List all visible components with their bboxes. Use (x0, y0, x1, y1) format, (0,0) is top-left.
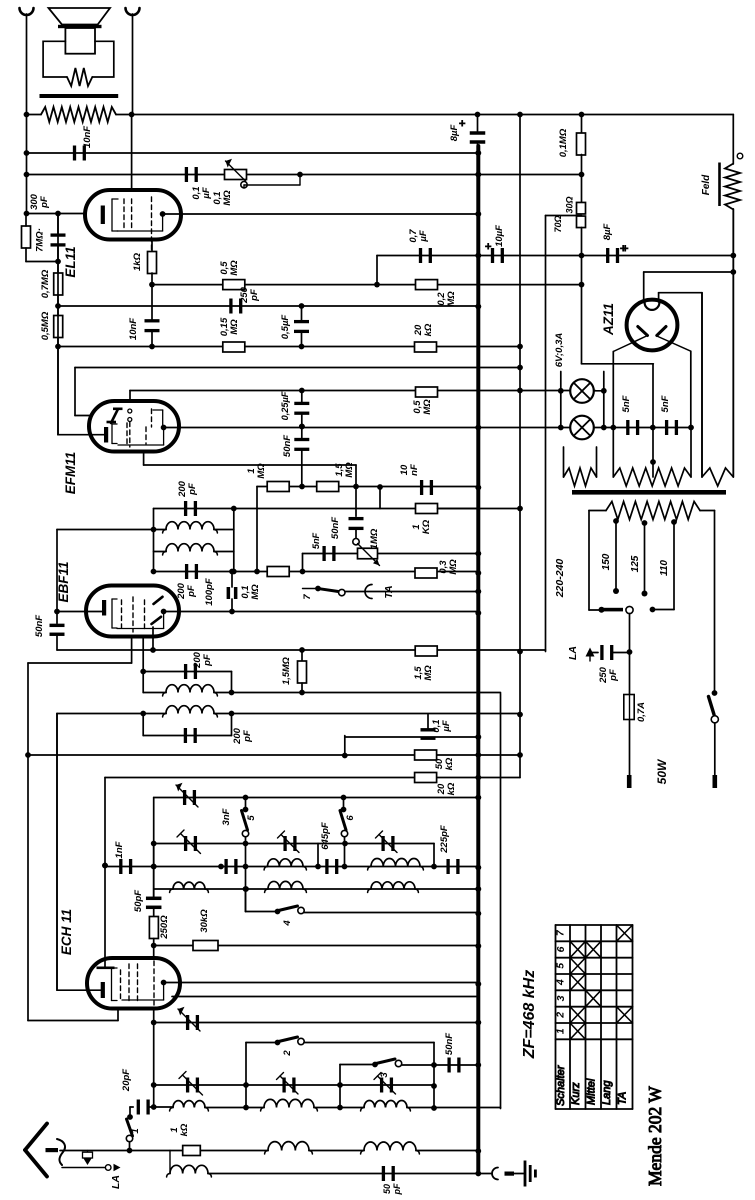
svg-text:0,15: 0,15 (219, 317, 230, 336)
svg-text:Kurz: Kurz (570, 1082, 582, 1105)
svg-text:1: 1 (411, 524, 422, 529)
svg-text:30kΩ: 30kΩ (199, 909, 210, 933)
svg-text:10µF: 10µF (494, 225, 505, 247)
svg-text:200: 200 (176, 582, 187, 600)
svg-text:645pF: 645pF (320, 822, 331, 850)
svg-text:110: 110 (659, 560, 670, 576)
svg-text:0,1: 0,1 (240, 585, 251, 598)
svg-text:5nF: 5nF (311, 532, 321, 549)
svg-text:50nF: 50nF (330, 517, 341, 539)
svg-text:1: 1 (555, 1028, 567, 1034)
svg-text:4: 4 (282, 920, 293, 927)
svg-text:50: 50 (434, 758, 445, 769)
svg-text:MΩ: MΩ (422, 399, 433, 415)
svg-text:200: 200 (177, 480, 188, 498)
svg-text:pF: pF (242, 730, 253, 743)
svg-text:100pF: 100pF (204, 578, 215, 606)
svg-text:TA: TA (617, 1092, 629, 1105)
svg-text:0,1: 0,1 (212, 191, 223, 204)
svg-text:2: 2 (555, 1012, 567, 1019)
svg-text:pF: pF (39, 196, 50, 209)
svg-text:MΩ: MΩ (344, 462, 355, 478)
svg-text:LA: LA (110, 1175, 122, 1189)
svg-text:125: 125 (630, 555, 641, 572)
svg-text:+: + (620, 243, 626, 255)
svg-text:nF: nF (409, 464, 420, 476)
svg-text:MΩ: MΩ (256, 463, 267, 479)
svg-text:EBF11: EBF11 (56, 561, 71, 602)
svg-text:50nF: 50nF (34, 615, 45, 637)
svg-text:EFM11: EFM11 (63, 452, 78, 495)
svg-text:1,5: 1,5 (334, 463, 345, 477)
svg-text:6: 6 (345, 815, 356, 821)
svg-text:ECH 11: ECH 11 (59, 909, 74, 955)
svg-text:7: 7 (555, 929, 567, 936)
svg-text:3: 3 (555, 995, 567, 1001)
svg-text:+: + (485, 241, 491, 253)
svg-text:225pF: 225pF (439, 825, 450, 854)
svg-text:200: 200 (192, 651, 203, 669)
svg-text:MΩ: MΩ (250, 584, 261, 600)
svg-text:EL11: EL11 (63, 246, 78, 277)
svg-text:3nF: 3nF (221, 808, 232, 825)
svg-text:pF: pF (187, 483, 198, 496)
svg-text:pF: pF (608, 669, 619, 682)
svg-text:MΩ: MΩ (423, 665, 434, 681)
svg-text:kΩ: kΩ (446, 782, 457, 795)
svg-text:200: 200 (232, 727, 243, 745)
svg-text:MΩ: MΩ (446, 291, 457, 307)
svg-text:Mende 202 W: Mende 202 W (645, 1086, 665, 1186)
svg-text:pF: pF (202, 654, 213, 667)
svg-text:0,5: 0,5 (219, 261, 230, 275)
svg-text:1MΩ: 1MΩ (369, 528, 380, 549)
svg-text:LA: LA (567, 646, 579, 660)
svg-text:1,5: 1,5 (413, 666, 424, 680)
svg-text:kΩ: kΩ (179, 1123, 190, 1136)
svg-text:MΩ: MΩ (229, 260, 240, 276)
svg-text:150: 150 (601, 553, 612, 570)
svg-text:250: 250 (598, 666, 609, 684)
svg-text:0,25µF: 0,25µF (280, 391, 290, 420)
svg-text:300: 300 (29, 193, 40, 210)
svg-text:1kΩ: 1kΩ (132, 252, 143, 271)
svg-text:50W: 50W (655, 758, 669, 784)
svg-text:70Ω: 70Ω (553, 215, 563, 232)
svg-text:20: 20 (436, 783, 447, 795)
svg-text:20: 20 (413, 324, 424, 336)
svg-text:Feld: Feld (701, 174, 712, 195)
svg-text:0,1: 0,1 (191, 186, 202, 199)
svg-text:7: 7 (302, 594, 313, 600)
svg-text:ZF=468 kHz: ZF=468 kHz (521, 970, 538, 1059)
svg-text:KΩ: KΩ (421, 519, 432, 534)
svg-text:10nF: 10nF (82, 126, 93, 148)
svg-text:5nF: 5nF (621, 395, 632, 412)
svg-text:5nF: 5nF (660, 395, 671, 412)
svg-text:1nF: 1nF (114, 841, 125, 858)
svg-text:pF: pF (186, 585, 197, 598)
svg-text:250: 250 (239, 286, 250, 304)
svg-text:MΩ: MΩ (448, 559, 459, 575)
svg-text:TA: TA (383, 585, 395, 598)
svg-text:Schalter: Schalter (555, 1064, 567, 1106)
svg-text:50: 50 (382, 1184, 392, 1194)
svg-text:10: 10 (399, 464, 410, 475)
svg-text:µF: µF (418, 230, 429, 242)
svg-text:20pF: 20pF (121, 1069, 132, 1092)
svg-text:220-240: 220-240 (554, 559, 566, 599)
svg-text:kΩ: kΩ (444, 757, 455, 770)
svg-text:2: 2 (282, 1050, 293, 1057)
svg-text:0,1MΩ: 0,1MΩ (558, 128, 569, 157)
svg-text:0,5µF: 0,5µF (280, 315, 291, 340)
svg-text:MΩ: MΩ (222, 190, 233, 206)
svg-text:+: + (459, 118, 465, 130)
svg-text:0,2: 0,2 (436, 292, 447, 306)
svg-text:AZ11: AZ11 (601, 303, 616, 336)
svg-text:0,5: 0,5 (412, 400, 423, 414)
svg-text:pF: pF (392, 1183, 402, 1195)
svg-text:6V;0,3A: 6V;0,3A (554, 333, 565, 368)
svg-text:8µF: 8µF (602, 224, 613, 241)
svg-text:1: 1 (246, 468, 257, 473)
svg-text:6: 6 (555, 946, 567, 952)
svg-text:Lang: Lang (601, 1080, 613, 1105)
svg-text:5: 5 (555, 963, 567, 969)
svg-text:0,1: 0,1 (431, 719, 442, 732)
svg-text:50pF: 50pF (133, 890, 144, 912)
svg-text:0,7MΩ: 0,7MΩ (40, 269, 51, 298)
svg-text:30Ω: 30Ω (565, 196, 575, 213)
svg-text:5: 5 (246, 815, 257, 821)
svg-text:0,5MΩ: 0,5MΩ (40, 311, 51, 340)
svg-text:1: 1 (130, 1128, 141, 1133)
svg-text:0,3: 0,3 (438, 560, 449, 574)
svg-text:7MΩ·: 7MΩ· (35, 228, 46, 252)
svg-text:kΩ: kΩ (423, 323, 434, 336)
svg-text:µF: µF (441, 720, 452, 732)
svg-text:pF: pF (249, 289, 260, 302)
svg-text:4: 4 (555, 979, 567, 986)
svg-text:50nF: 50nF (444, 1033, 455, 1055)
svg-text:1: 1 (169, 1127, 180, 1132)
svg-text:0,7: 0,7 (408, 229, 419, 243)
svg-text:0,7A: 0,7A (636, 702, 647, 722)
svg-text:1,5MΩ: 1,5MΩ (281, 657, 291, 685)
svg-text:50nF: 50nF (282, 435, 293, 457)
svg-text:MΩ: MΩ (229, 319, 240, 335)
svg-text:250Ω: 250Ω (159, 915, 170, 940)
svg-text:µF: µF (201, 187, 212, 199)
svg-text:Mittel: Mittel (585, 1078, 597, 1105)
svg-text:10nF: 10nF (128, 318, 139, 340)
